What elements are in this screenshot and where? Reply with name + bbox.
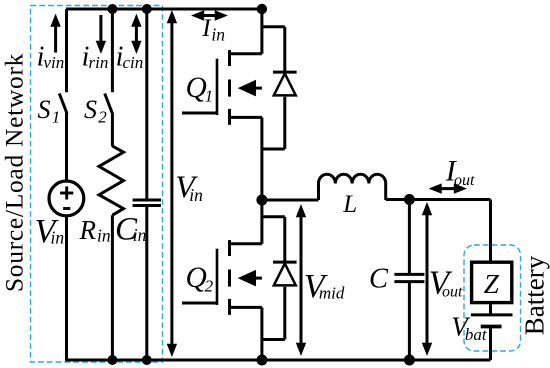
svg-text:in: in xyxy=(211,25,225,45)
node out xyxy=(404,194,415,205)
transistor Q1 xyxy=(216,59,219,115)
battery dashed box xyxy=(464,245,521,351)
arrow V_in measure xyxy=(170,20,173,347)
node top R xyxy=(107,4,117,14)
wire Z to battery xyxy=(489,303,492,315)
node mid xyxy=(256,195,267,206)
svg-text:C: C xyxy=(369,263,389,294)
wire C out bottom xyxy=(408,283,411,360)
svg-text:out: out xyxy=(442,283,463,300)
wire source branch mid xyxy=(65,113,68,182)
svg-text:mid: mid xyxy=(319,283,345,302)
svg-text:cin: cin xyxy=(123,53,144,72)
wire mid to inductor xyxy=(262,199,319,202)
wire Q2 source vertical xyxy=(260,307,263,360)
source/load network dashed box xyxy=(31,6,163,363)
wire C branch bottom xyxy=(145,207,148,360)
svg-text:in: in xyxy=(133,225,147,245)
switch S1 xyxy=(59,94,67,114)
wire source branch bottom xyxy=(65,216,68,360)
voltage source Vin circle xyxy=(49,181,84,216)
svg-text:S: S xyxy=(38,95,51,124)
capacitor Cin xyxy=(133,199,161,202)
node bottom C xyxy=(142,355,152,365)
wire R branch bottom xyxy=(111,215,114,360)
arrow i_rin xyxy=(99,15,102,43)
svg-text:1: 1 xyxy=(52,107,61,126)
wire Q2 drain vertical xyxy=(260,200,263,244)
wire R branch top xyxy=(111,9,114,92)
svg-text:rin: rin xyxy=(89,53,109,72)
svg-text:1: 1 xyxy=(205,86,214,105)
wire battery top xyxy=(489,200,492,264)
wire inductor to node xyxy=(386,198,491,201)
impedance Z box xyxy=(472,262,512,302)
wire Q1 drain vertical xyxy=(260,9,263,54)
wire top rail xyxy=(66,8,262,11)
svg-text:out: out xyxy=(454,172,475,189)
arrow i_vin xyxy=(54,24,57,53)
node bottom R xyxy=(107,355,117,365)
arrow i_cin xyxy=(135,24,138,44)
svg-text:2: 2 xyxy=(205,276,214,295)
wire battery bottom xyxy=(489,328,492,360)
transistor Q2 xyxy=(216,249,219,305)
switch S2 xyxy=(105,94,113,114)
resistor Rin xyxy=(99,146,124,215)
arrow V_mid measure xyxy=(300,212,303,348)
arrow V_out measure xyxy=(426,210,429,348)
svg-text:S: S xyxy=(84,95,97,124)
battery Vbat plates xyxy=(471,313,513,316)
svg-text:in: in xyxy=(97,226,111,246)
svg-text:Battery: Battery xyxy=(520,255,550,335)
wire C out top xyxy=(408,200,411,274)
svg-text:vin: vin xyxy=(44,53,65,72)
capacitor C xyxy=(394,273,424,276)
svg-text:Z: Z xyxy=(484,269,500,299)
node bottom Q xyxy=(256,355,267,366)
svg-text:2: 2 xyxy=(98,107,107,126)
wire R branch mid xyxy=(111,113,114,147)
diode D1 xyxy=(262,25,285,28)
wire source branch top xyxy=(65,9,68,92)
node bottom out xyxy=(404,355,415,366)
node top C xyxy=(142,4,152,14)
svg-text:bat: bat xyxy=(465,325,488,344)
svg-text:L: L xyxy=(342,191,357,218)
svg-text:R: R xyxy=(79,215,97,245)
diode D2 xyxy=(262,215,285,218)
node top Q xyxy=(257,4,267,14)
arrow I_in xyxy=(200,14,221,17)
arrow I_out xyxy=(437,187,459,190)
wire bottom rail xyxy=(65,359,490,362)
svg-text:in: in xyxy=(189,185,203,205)
wire Q1 source vertical xyxy=(260,117,263,200)
svg-text:in: in xyxy=(51,228,65,248)
wire C branch top xyxy=(145,9,148,199)
svg-text:Source/Load Network: Source/Load Network xyxy=(0,53,28,292)
inductor L xyxy=(319,174,386,200)
